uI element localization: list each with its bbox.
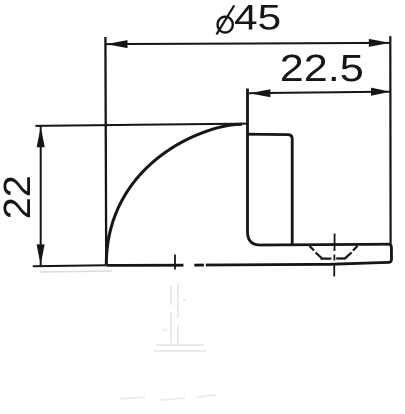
dimension text 45 [234,0,281,38]
countersink cone right upper segment [353,246,358,251]
dimension text ø45 : diameter symbol circle [218,17,233,33]
diameter symbol slash [217,5,235,34]
center tick on bottom line (x=175) [174,255,176,270]
top extension line for 22 dim [35,124,247,126]
arrowhead bottom of 22 dim [37,244,45,265]
dome quarter-circle arc [106,124,242,264]
svg-text:22: 22 [0,175,39,219]
hook inner top edge + corner + inner vertical [248,134,293,244]
screw hole centerline dash bottom [333,264,335,277]
arrowhead top of 22 dim [37,126,45,147]
dimension text 22 (rotated) [0,175,39,219]
extension line right (x=390) [389,36,392,243]
svg-text:45: 45 [234,0,281,38]
countersink cone right lower segment [345,252,352,258]
countersink cone left upper segment [310,246,315,251]
dimension text 22.5 [280,48,364,90]
svg-text:22.5: 22.5 [280,48,364,90]
dimension line ø45 [106,43,390,44]
ghost show-through bottom smudge [120,395,216,400]
countersink cone left lower segment [316,253,323,259]
ghost show-through vertical smudge [153,283,207,351]
plate bottom line left part [106,264,183,267]
bottom extension line for 22 dim [33,264,106,267]
arrowhead left of 22.5 dim [249,89,270,97]
extension line left (x=105) [104,37,107,258]
arrowhead left of ø45 dim [106,40,127,48]
plate bottom line dash (dash-dot break) [194,264,204,267]
arrowhead right of 22.5 dim [371,88,390,96]
screw hole centerline dot [333,255,335,261]
dimension line 22 (vertical) [40,126,42,265]
screw hole centerline dash top [334,234,336,252]
countersink hole bottom edge [321,257,346,259]
ghost shadow under bottom-left extension line [40,271,112,272]
hook front edge + fillet + plate top + rounded right end [206,89,392,266]
arrowhead right of ø45 dim [369,39,390,47]
dimension line 22.5 [249,92,390,94]
